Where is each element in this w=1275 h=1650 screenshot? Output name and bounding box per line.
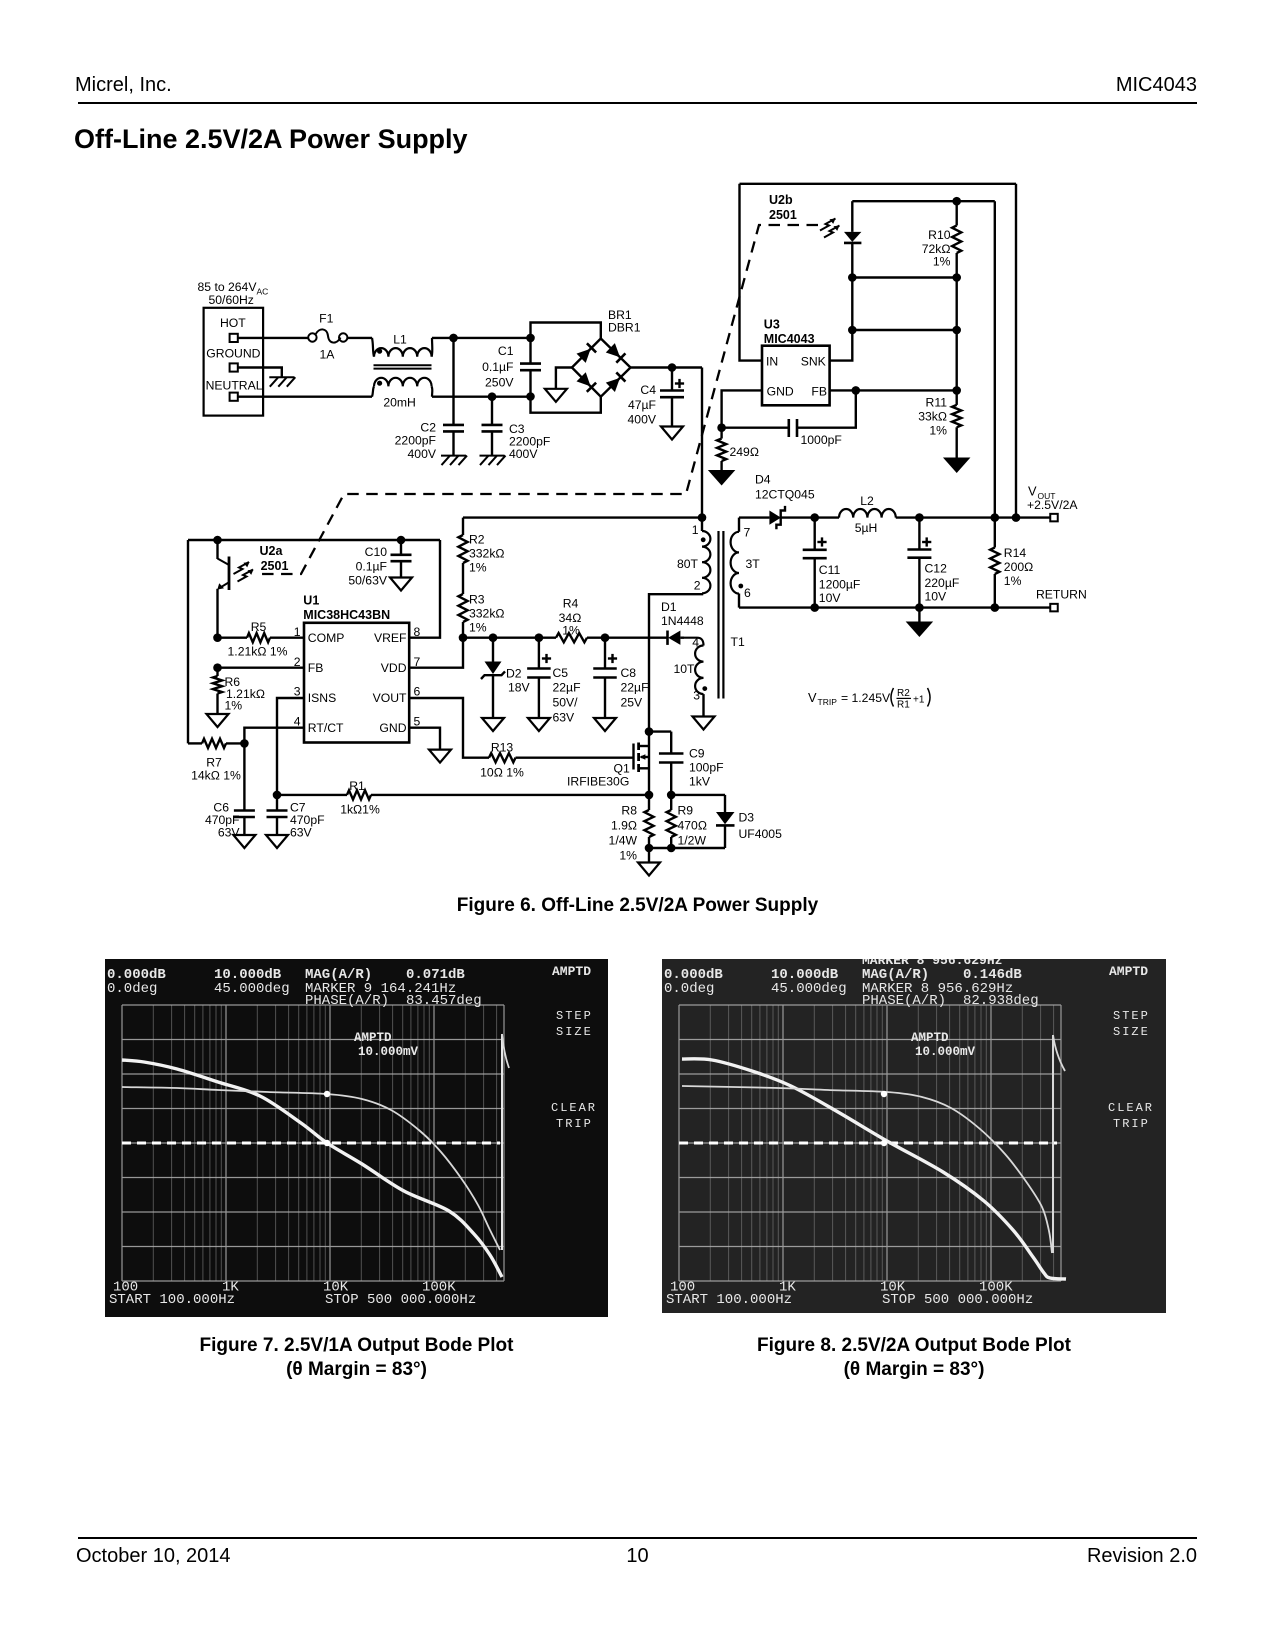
svg-text:U1: U1 bbox=[303, 594, 319, 608]
wire R13 to Q1 gate bbox=[516, 757, 634, 759]
capacitor C7 470pF 63V bbox=[267, 795, 325, 840]
wire T1 pin2 to Q1 drain bbox=[649, 594, 702, 732]
svg-text:SIZE: SIZE bbox=[556, 1025, 593, 1039]
svg-text:AMPTD: AMPTD bbox=[911, 1031, 949, 1045]
zero dB reference dashed bbox=[679, 1142, 1057, 1145]
resistor R4 34 ohm 1% bbox=[556, 597, 587, 643]
svg-text:PHASE(A/R): PHASE(A/R) bbox=[862, 993, 946, 1009]
svg-text:63V: 63V bbox=[553, 711, 576, 725]
resistor 249 ohm bbox=[717, 428, 759, 470]
junction opto/R10 upper bbox=[848, 273, 857, 282]
zero dB reference dashed bbox=[122, 1142, 500, 1145]
grid bbox=[710, 1005, 1053, 1281]
junction C11 top bbox=[810, 513, 819, 522]
svg-text:GROUND: GROUND bbox=[206, 347, 260, 361]
wire left COMP rail bbox=[188, 539, 440, 541]
footer bbox=[78, 1537, 1197, 1539]
bridge rectifier BR1 DBR1 bbox=[531, 308, 641, 413]
svg-text:IN: IN bbox=[766, 355, 778, 369]
svg-text:R13: R13 bbox=[491, 741, 514, 755]
capacitor 1000pF bbox=[722, 390, 856, 447]
svg-text:SNK: SNK bbox=[801, 355, 826, 369]
svg-text:VREF: VREF bbox=[374, 631, 407, 645]
svg-text:50/63V: 50/63V bbox=[348, 574, 387, 588]
svg-text:1.21kΩ 1%: 1.21kΩ 1% bbox=[228, 645, 288, 659]
resistor R7 14k 1% bbox=[188, 739, 244, 783]
svg-text:20mH: 20mH bbox=[383, 396, 416, 410]
ground (return rail) bbox=[906, 608, 934, 637]
svg-text:AMPTD: AMPTD bbox=[354, 1031, 392, 1045]
junction C4 bbox=[668, 363, 677, 372]
svg-text:IRFIBE30G: IRFIBE30G bbox=[567, 775, 629, 789]
junction ISNS/R1/C7 bbox=[273, 791, 282, 800]
junction U2a collector bbox=[213, 536, 222, 545]
junction C3/neutral bbox=[488, 392, 497, 401]
svg-text:RT/CT: RT/CT bbox=[308, 721, 344, 735]
svg-text:TRIP: TRIP bbox=[818, 697, 838, 707]
bode plot figure 7 bbox=[105, 959, 608, 1317]
caption figure 6 bbox=[0, 895, 1275, 917]
resistor R10 72k 1% bbox=[922, 201, 962, 277]
svg-text:F1: F1 bbox=[319, 312, 333, 326]
junction return ground bbox=[915, 603, 924, 612]
wire opto cathode down bbox=[851, 278, 853, 331]
svg-text:12CTQ045: 12CTQ045 bbox=[755, 488, 815, 502]
wire R4 to D1 bbox=[587, 637, 668, 639]
junction Q1 drain bbox=[645, 727, 654, 736]
junction C12 top bbox=[915, 513, 924, 522]
capacitor C12 220uF 10V bbox=[907, 518, 959, 608]
header bbox=[75, 74, 172, 97]
svg-text:U3: U3 bbox=[764, 318, 780, 332]
svg-text:1%: 1% bbox=[562, 624, 580, 638]
resistor R2 332k 1% bbox=[458, 518, 504, 594]
svg-text:2200pF: 2200pF bbox=[395, 434, 436, 448]
junction C2/hot bbox=[449, 334, 458, 343]
wire RETURN rail bbox=[739, 606, 1050, 608]
wire U1 FB bbox=[218, 667, 305, 669]
svg-text:63V: 63V bbox=[290, 826, 313, 840]
svg-text:22µF: 22µF bbox=[621, 681, 649, 695]
svg-text:+1: +1 bbox=[913, 695, 925, 706]
svg-text:FB: FB bbox=[308, 661, 324, 675]
junction opto/R10 lower bbox=[848, 326, 857, 335]
svg-text:C1: C1 bbox=[498, 344, 514, 358]
svg-text:1: 1 bbox=[692, 523, 699, 537]
inductor L2 5uH bbox=[839, 494, 896, 535]
svg-text:R3: R3 bbox=[469, 593, 485, 607]
svg-text:400V: 400V bbox=[628, 413, 657, 427]
svg-text:33kΩ: 33kΩ bbox=[918, 410, 947, 424]
junction C11 bottom bbox=[810, 603, 819, 612]
wire LED anode rail bbox=[852, 200, 995, 202]
svg-text:START 100.000Hz: START 100.000Hz bbox=[109, 1292, 235, 1308]
junction C5 bbox=[535, 633, 544, 642]
grid bbox=[153, 1005, 496, 1281]
svg-text:10Ω 1%: 10Ω 1% bbox=[480, 766, 524, 780]
svg-text:VOUT: VOUT bbox=[373, 691, 407, 705]
svg-text:C2: C2 bbox=[420, 421, 436, 435]
wire bridge minus to ground bbox=[556, 368, 572, 389]
wire opto to U3 SNK bbox=[830, 330, 853, 361]
svg-text:220µF: 220µF bbox=[925, 576, 960, 590]
wire L2 to VOUT terminal bbox=[896, 516, 1050, 518]
chassis ground (input) bbox=[269, 377, 295, 387]
wire VDD rail to T1 pin 1 bbox=[463, 516, 702, 518]
capacitor C3 2200pF 400V bbox=[480, 397, 551, 465]
capacitor C11 1200uF 10V bbox=[803, 518, 861, 608]
junction C9 bottom bbox=[667, 791, 676, 800]
svg-text:1.9Ω: 1.9Ω bbox=[611, 819, 637, 833]
svg-text:1200µF: 1200µF bbox=[819, 577, 861, 591]
wire U3 FB bbox=[830, 389, 957, 391]
svg-text:R8: R8 bbox=[621, 804, 637, 818]
resistor R14 200 ohm 1% bbox=[990, 518, 1033, 608]
wire U1 GND bbox=[409, 728, 440, 750]
svg-text:332kΩ: 332kΩ bbox=[469, 547, 505, 561]
markers bbox=[881, 1091, 887, 1097]
junction FB bbox=[213, 663, 222, 672]
svg-text:0.1µF: 0.1µF bbox=[482, 360, 513, 374]
svg-text:V: V bbox=[808, 690, 817, 705]
ground (D2) bbox=[482, 718, 504, 731]
junction R8 bottom bbox=[645, 844, 654, 853]
svg-text:D4: D4 bbox=[755, 473, 771, 487]
svg-text:HOT: HOT bbox=[220, 316, 246, 330]
capacitor C4 47uF 400V bbox=[628, 368, 685, 427]
svg-text:1/4W: 1/4W bbox=[609, 834, 638, 848]
svg-text:TRIP: TRIP bbox=[556, 1117, 593, 1131]
junction R10 top bbox=[952, 197, 961, 206]
wire rectified bus down to T1 pin 1 bbox=[701, 368, 703, 532]
svg-text:22µF: 22µF bbox=[553, 681, 581, 695]
node VOUT terminal bbox=[1027, 484, 1078, 522]
ground (R11) bbox=[943, 458, 971, 474]
svg-text:D3: D3 bbox=[739, 811, 755, 825]
svg-text:1%: 1% bbox=[1004, 574, 1022, 588]
ground (C10) bbox=[390, 578, 412, 591]
svg-text:START 100.000Hz: START 100.000Hz bbox=[666, 1292, 792, 1308]
bode plot figure 8 bbox=[662, 959, 1166, 1313]
ground (T1 pin 3) bbox=[693, 717, 715, 730]
capacitor C2 2200pF 400V bbox=[395, 338, 467, 465]
node RETURN terminal bbox=[1036, 588, 1087, 612]
svg-text:AMPTD: AMPTD bbox=[1109, 964, 1148, 979]
gain curve bbox=[682, 1059, 1066, 1279]
svg-text:1kV: 1kV bbox=[689, 775, 711, 789]
transistor Q1 IRFIBE30G bbox=[567, 732, 649, 795]
svg-text:2: 2 bbox=[694, 579, 701, 593]
svg-text:200Ω: 200Ω bbox=[1004, 560, 1033, 574]
optocoupler U2b 2501 (LED) bbox=[769, 193, 861, 278]
svg-text:1%: 1% bbox=[619, 849, 637, 863]
svg-text:3: 3 bbox=[294, 685, 301, 699]
capacitor C10 0.1uF 50/63V bbox=[348, 540, 411, 588]
svg-text:= 1.245V: = 1.245V bbox=[841, 691, 891, 705]
resistor R1 1k 1% bbox=[277, 779, 649, 817]
svg-text:6: 6 bbox=[414, 685, 421, 699]
svg-text:V: V bbox=[1028, 484, 1037, 499]
svg-text:R1: R1 bbox=[897, 700, 910, 711]
ground (C6) bbox=[233, 835, 255, 848]
phase wrap spike bbox=[1052, 1035, 1054, 1253]
svg-text:STEP: STEP bbox=[556, 1009, 593, 1023]
ground (C4) bbox=[661, 427, 683, 440]
svg-text:6: 6 bbox=[744, 586, 751, 600]
svg-text:400V: 400V bbox=[408, 447, 437, 461]
resistor R8 1.9 ohm 1/4W 1% bbox=[609, 795, 654, 863]
op-amp U1 MIC38HC43BN bbox=[303, 594, 409, 743]
wire U1 VOUT to R13 bbox=[409, 698, 489, 758]
wire T1 pin7 to D4 bbox=[739, 516, 769, 518]
wire HOT to fuse bbox=[238, 337, 309, 339]
wire L1 top to bridge bbox=[432, 337, 531, 339]
junction C10 bbox=[397, 536, 406, 545]
ground (C7) bbox=[266, 835, 288, 848]
wire source network bottom bbox=[649, 847, 725, 849]
svg-text:Q1: Q1 bbox=[614, 762, 630, 776]
svg-text:2501: 2501 bbox=[769, 208, 797, 222]
svg-text:R4: R4 bbox=[563, 597, 579, 611]
svg-text:10V: 10V bbox=[925, 590, 948, 604]
resistor R5 1.21k 1% bbox=[218, 620, 305, 659]
op-amp U3 MIC4043 bbox=[762, 318, 830, 406]
svg-text:47µF: 47µF bbox=[628, 398, 656, 412]
svg-text:250V: 250V bbox=[485, 376, 514, 390]
svg-text:1/2W: 1/2W bbox=[678, 834, 707, 848]
svg-text:GND: GND bbox=[379, 721, 406, 735]
svg-text:R2: R2 bbox=[469, 533, 485, 547]
svg-text:1A: 1A bbox=[320, 348, 336, 362]
resistor R9 470 ohm 1/2W bbox=[667, 795, 707, 848]
svg-text:1%: 1% bbox=[469, 561, 487, 575]
wire D4 to L2 node bbox=[781, 516, 839, 518]
wire VOUT supply top rail bbox=[740, 183, 1017, 185]
svg-text:1%: 1% bbox=[469, 621, 487, 635]
svg-text:MIC38HC43BN: MIC38HC43BN bbox=[303, 608, 390, 622]
capacitor C5 22uF 50V/63V bbox=[527, 638, 580, 725]
junction R14 top bbox=[991, 513, 1000, 522]
wire VREF riser bbox=[409, 540, 440, 638]
zener D2 18V bbox=[481, 638, 531, 718]
svg-text:NEUTRAL: NEUTRAL bbox=[206, 379, 263, 393]
junction Q1 source bbox=[645, 791, 654, 800]
svg-text:C12: C12 bbox=[925, 562, 948, 576]
svg-text:82.938deg: 82.938deg bbox=[963, 993, 1039, 1009]
gain curve bbox=[122, 1060, 502, 1277]
svg-text:R9: R9 bbox=[678, 804, 694, 818]
svg-text:R1: R1 bbox=[349, 779, 365, 793]
svg-text:ISNS: ISNS bbox=[308, 691, 336, 705]
transformer T1 bbox=[673, 518, 760, 716]
svg-text:UF4005: UF4005 bbox=[739, 827, 783, 841]
svg-text:VDD: VDD bbox=[381, 661, 407, 675]
capacitor C9 100pF 1kV bbox=[649, 732, 724, 795]
phase curve bbox=[122, 1087, 500, 1250]
svg-text:25V: 25V bbox=[621, 696, 644, 710]
junction C1 top bbox=[526, 334, 535, 343]
svg-text:GND: GND bbox=[767, 384, 794, 398]
resistor R11 33k 1% bbox=[918, 390, 961, 457]
junction T1 pin1 feed bbox=[698, 513, 707, 522]
common-mode choke L1 20mH bbox=[372, 332, 432, 409]
wire R10 bottom down to FB bbox=[956, 278, 958, 391]
wire U1 RT/CT bbox=[244, 728, 304, 811]
ground (C8) bbox=[594, 718, 616, 731]
svg-text:R14: R14 bbox=[1004, 546, 1027, 560]
junction riser/VOUT bbox=[1012, 513, 1021, 522]
svg-text:C9: C9 bbox=[689, 747, 705, 761]
capacitor C1 0.1uF 250V bbox=[482, 338, 541, 397]
junction FB/C cap bbox=[852, 386, 861, 395]
capacitor C8 22uF 25V bbox=[593, 638, 648, 718]
optocoupler U2a 2501 (phototransistor) bbox=[217, 540, 288, 638]
svg-text:FB: FB bbox=[811, 384, 827, 398]
svg-text:10V: 10V bbox=[819, 591, 842, 605]
svg-text:5: 5 bbox=[414, 714, 421, 728]
wire left vertical to R7 bbox=[187, 540, 189, 743]
svg-text:SIZE: SIZE bbox=[1113, 1025, 1150, 1039]
diode D3 UF4005 bbox=[716, 795, 782, 848]
svg-text:STEP: STEP bbox=[1113, 1009, 1150, 1023]
wire bridge plus to C4 bbox=[631, 366, 703, 368]
svg-text:470Ω: 470Ω bbox=[678, 819, 707, 833]
svg-text:100pF: 100pF bbox=[689, 761, 724, 775]
svg-text:R7: R7 bbox=[206, 756, 222, 770]
junction C1 bottom bbox=[526, 392, 535, 401]
svg-text:10T: 10T bbox=[673, 662, 695, 676]
svg-text:1%: 1% bbox=[929, 424, 947, 438]
junction GND/249 bbox=[717, 423, 726, 432]
svg-text:R2: R2 bbox=[897, 688, 910, 699]
svg-text:332kΩ: 332kΩ bbox=[469, 607, 505, 621]
svg-text:0.0deg: 0.0deg bbox=[107, 981, 157, 997]
svg-text:C11: C11 bbox=[819, 563, 841, 577]
junction FB/R11 bbox=[952, 386, 961, 395]
svg-text:10.000mV: 10.000mV bbox=[358, 1045, 419, 1059]
svg-text:D2: D2 bbox=[506, 667, 522, 681]
svg-text:COMP: COMP bbox=[308, 631, 345, 645]
svg-text:4: 4 bbox=[294, 714, 301, 728]
formula Vtrip bbox=[808, 688, 930, 711]
svg-text:83.457deg: 83.457deg bbox=[406, 993, 482, 1009]
svg-text:1000pF: 1000pF bbox=[801, 433, 842, 447]
wire opto-R10 lower tie bbox=[852, 329, 956, 331]
wire C9 to D3 bbox=[671, 794, 725, 796]
svg-text:0.1µF: 0.1µF bbox=[356, 560, 387, 574]
resistor R6 1.21k 1% bbox=[213, 668, 265, 714]
svg-text:C8: C8 bbox=[621, 666, 637, 680]
junction RT/CT bbox=[240, 739, 249, 748]
svg-text:U2b: U2b bbox=[769, 193, 793, 207]
svg-text:R10: R10 bbox=[928, 228, 951, 242]
svg-text:AMPTD: AMPTD bbox=[552, 964, 591, 979]
svg-text:C10: C10 bbox=[365, 545, 388, 559]
svg-text:4: 4 bbox=[692, 636, 699, 650]
svg-text:1%: 1% bbox=[933, 255, 951, 269]
svg-text:10.000mV: 10.000mV bbox=[915, 1045, 976, 1059]
wire NEUTRAL to L1 bbox=[238, 396, 372, 398]
svg-text:CLEAR: CLEAR bbox=[551, 1101, 597, 1115]
markers bbox=[324, 1091, 330, 1097]
svg-text:45.000deg: 45.000deg bbox=[771, 981, 847, 997]
ground (U1 GND) bbox=[429, 750, 451, 763]
wire L1 bottom to bridge bbox=[432, 396, 531, 398]
junction R14 bottom bbox=[991, 603, 1000, 612]
svg-text:DBR1: DBR1 bbox=[608, 321, 641, 335]
wire R10 rail down to VOUT node bbox=[994, 201, 996, 517]
wire opto-R10 upper tie bbox=[852, 276, 956, 278]
caption figure 7 bbox=[105, 1334, 608, 1382]
svg-text:3: 3 bbox=[693, 689, 700, 703]
junction D2 bbox=[489, 633, 498, 642]
svg-text:80T: 80T bbox=[677, 557, 699, 571]
svg-text:0.0deg: 0.0deg bbox=[664, 981, 714, 997]
wire GROUND to earth bbox=[238, 368, 282, 378]
ground (R8/R9/D3) bbox=[638, 848, 660, 876]
resistor R13 10 ohm 1% bbox=[480, 741, 524, 780]
svg-text:D1: D1 bbox=[661, 600, 677, 614]
svg-text:RETURN: RETURN bbox=[1036, 588, 1087, 602]
svg-text:7: 7 bbox=[744, 526, 751, 540]
AC input connector bbox=[198, 280, 269, 416]
wire top rail down to VOUT node bbox=[1015, 184, 1017, 518]
fuse F1 1A bbox=[308, 312, 347, 362]
title bbox=[74, 124, 468, 155]
svg-text:1kΩ1%: 1kΩ1% bbox=[340, 803, 380, 817]
svg-text:5µH: 5µH bbox=[855, 521, 878, 535]
wire top rail to U3 IN bbox=[740, 184, 763, 361]
junction R5/U2a bbox=[213, 633, 222, 642]
caption figure 8 bbox=[662, 1334, 1166, 1382]
svg-text:3T: 3T bbox=[746, 557, 761, 571]
svg-text:L1: L1 bbox=[393, 332, 407, 346]
svg-text:18V: 18V bbox=[508, 681, 531, 695]
right edge trace bbox=[501, 1034, 503, 1250]
capacitor C6 470pF 63V bbox=[205, 801, 255, 840]
svg-text:+2.5V/2A: +2.5V/2A bbox=[1027, 498, 1078, 512]
svg-text:2501: 2501 bbox=[261, 559, 289, 573]
svg-text:400V: 400V bbox=[509, 447, 538, 461]
wire fuse to L1 bbox=[347, 337, 372, 339]
svg-text:AC: AC bbox=[257, 287, 269, 297]
ground (R6) bbox=[207, 714, 229, 727]
svg-text:STOP 500 000.000Hz: STOP 500 000.000Hz bbox=[882, 1292, 1033, 1308]
diode D1 1N4448 bbox=[661, 600, 704, 645]
diode D4 12CTQ045 bbox=[755, 473, 815, 530]
svg-text:T1: T1 bbox=[731, 635, 745, 649]
phase curve bbox=[682, 1086, 1052, 1253]
wire D1 to T1 pin4 bbox=[680, 637, 684, 639]
svg-text:R11: R11 bbox=[926, 396, 948, 410]
optocoupler dashed light path bbox=[262, 225, 818, 574]
svg-text:8: 8 bbox=[414, 625, 421, 639]
svg-text:1%: 1% bbox=[225, 699, 243, 713]
svg-text:STOP 500 000.000Hz: STOP 500 000.000Hz bbox=[325, 1292, 476, 1308]
svg-text:L2: L2 bbox=[860, 494, 874, 508]
junction R9 bottom bbox=[667, 844, 676, 853]
svg-text:C4: C4 bbox=[640, 383, 656, 397]
wire VDD rail bbox=[463, 637, 556, 639]
svg-text:1N4448: 1N4448 bbox=[661, 614, 704, 628]
junction VDD rail bbox=[459, 633, 468, 642]
svg-text:MIC4043: MIC4043 bbox=[764, 332, 815, 346]
svg-text:45.000deg: 45.000deg bbox=[214, 981, 290, 997]
svg-text:249Ω: 249Ω bbox=[730, 445, 759, 459]
svg-text:50/60Hz: 50/60Hz bbox=[209, 293, 254, 307]
ground (bridge) bbox=[545, 389, 567, 402]
svg-text:PHASE(A/R): PHASE(A/R) bbox=[305, 993, 389, 1009]
